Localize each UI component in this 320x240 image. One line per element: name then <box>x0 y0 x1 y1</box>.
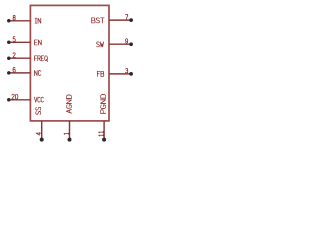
pin number 9 <box>125 39 127 44</box>
pin 9 dot <box>129 42 133 46</box>
pin number 6 <box>13 67 15 72</box>
pin name PGND <box>101 94 106 113</box>
pin 8 dot <box>7 19 11 23</box>
pin 20 VCC wire <box>9 99 31 101</box>
pin 6 NC wire <box>9 72 31 74</box>
pin 11 PGND wire <box>103 121 105 140</box>
pin name VCC <box>34 97 43 102</box>
pin number 4 <box>36 133 41 136</box>
pin 1 AGND wire <box>69 121 71 140</box>
pin 9 SW wire <box>109 43 131 45</box>
pin 4 SS wire <box>41 121 43 140</box>
pin 4 dot <box>40 138 44 142</box>
pin 8 IN wire <box>9 20 31 22</box>
pin 5 dot <box>7 41 11 45</box>
pin name IN <box>35 18 41 23</box>
pin number 3 <box>125 68 127 73</box>
pin number 2 <box>13 53 15 58</box>
pin 11 dot <box>102 138 106 142</box>
pin 1 dot <box>68 138 72 142</box>
pin 3 FB wire <box>109 73 131 75</box>
pin 2 FREQ wire <box>9 57 31 59</box>
pin 6 dot <box>7 71 11 75</box>
pin 3 dot <box>129 72 133 76</box>
pin number 8 <box>13 15 15 20</box>
pin number 5 <box>13 37 15 42</box>
pin number 7 <box>125 15 127 20</box>
pin number 20 <box>12 94 18 99</box>
pin name EN <box>35 40 42 45</box>
pin 2 dot <box>7 56 11 60</box>
pin 5 EN wire <box>9 41 31 43</box>
IC body U1 <box>30 5 109 121</box>
pin name BST <box>92 18 104 23</box>
pin name FREQ <box>35 56 48 62</box>
pin name SW <box>97 42 104 47</box>
pin number 11 <box>99 131 104 136</box>
pin name FB <box>97 71 103 76</box>
pin 7 BST wire <box>109 19 131 21</box>
pin 20 dot <box>7 98 11 102</box>
pin number 1 <box>64 133 69 135</box>
pin name SS <box>36 107 41 114</box>
pin name NC <box>35 71 41 76</box>
pin name AGND <box>66 95 71 113</box>
pin 7 dot <box>129 18 133 22</box>
